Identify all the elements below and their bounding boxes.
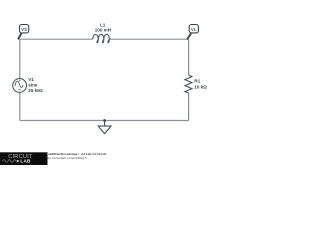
- svg-text:sine: sine: [28, 83, 38, 88]
- wire right upper: VL corner down to R1 top: [188, 39, 190, 75]
- V1 plus sign: [18, 79, 20, 81]
- wire top: inductor to VL corner: [111, 38, 189, 40]
- wire right lower: R1 bottom to bottom rail: [188, 93, 190, 121]
- CircuitLab logo bar: [0, 152, 48, 165]
- ground stub: [104, 121, 106, 127]
- junction dot at ground: [103, 119, 106, 122]
- source V1 circle: [13, 79, 27, 93]
- svg-text:http://circuitlab.com/c/249qz7: http://circuitlab.com/c/249qz7/: [46, 156, 87, 160]
- ground triangle: [98, 126, 111, 134]
- svg-text:V1: V1: [28, 77, 34, 82]
- svg-text:10 kΩ: 10 kΩ: [194, 85, 207, 90]
- inductor L1 coil: [93, 34, 111, 42]
- node flag VS: [18, 25, 29, 40]
- svg-text:R1: R1: [194, 79, 200, 84]
- V1 minus sign: [18, 89, 21, 91]
- wire left upper: corner down to V1 top: [19, 39, 21, 78]
- svg-text:100 mH: 100 mH: [95, 27, 112, 32]
- svg-text:LAB: LAB: [20, 159, 31, 164]
- wire left lower: V1 bottom to bottom rail: [19, 93, 21, 121]
- V1 sine glyph: [15, 81, 23, 87]
- wire bottom rail: [20, 120, 189, 122]
- resistor R1 zigzag: [185, 75, 192, 93]
- svg-text:VS: VS: [21, 27, 27, 32]
- svg-text:VL: VL: [191, 27, 197, 32]
- node flag VL: [187, 25, 198, 40]
- wire top: VS corner to inductor: [20, 38, 93, 40]
- svg-text:25 kHz: 25 kHz: [28, 88, 43, 93]
